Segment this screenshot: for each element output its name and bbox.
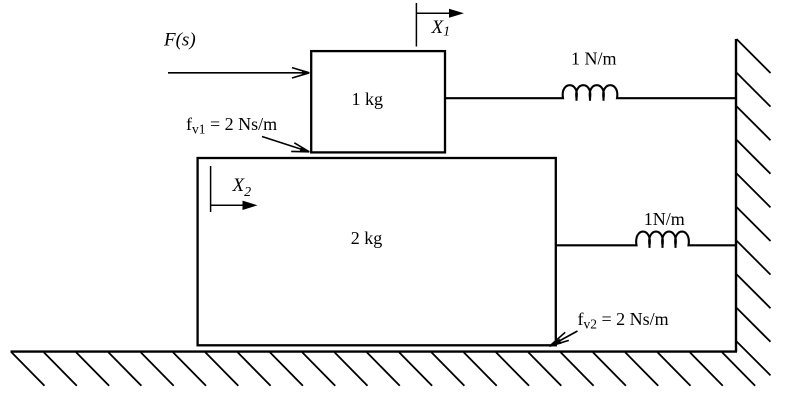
- svg-text:2 kg: 2 kg: [351, 228, 383, 248]
- svg-text:1N/m: 1N/m: [644, 209, 685, 229]
- svg-text:1 kg: 1 kg: [352, 89, 384, 109]
- svg-text:1 N/m: 1 N/m: [571, 49, 617, 69]
- svg-text:F(s): F(s): [163, 30, 196, 51]
